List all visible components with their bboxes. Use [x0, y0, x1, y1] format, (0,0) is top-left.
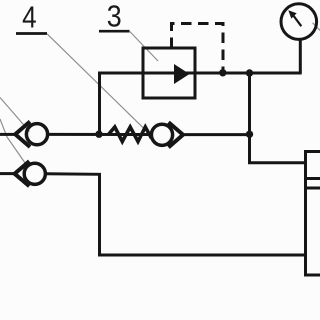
- wire: left inlet to check valve V2: [0, 172, 16, 175]
- wire: riser node A up to valve box line: [98, 72, 101, 135]
- pressure gauge stem: [299, 40, 302, 73]
- flow arrow inside valve box: [174, 64, 190, 84]
- leader line from off-canvas label to pressure gauge: [313, 23, 320, 31]
- pressure gauge needle arrowhead: [288, 10, 296, 18]
- wire: V2 to cylinder bottom port: [46, 174, 306, 255]
- svg-text:4: 4: [22, 0, 37, 35]
- wire: V1 to node A: [48, 133, 152, 136]
- leader line from off-canvas label to check valve V2: [0, 119, 28, 167]
- node D junction dot: [246, 131, 253, 138]
- check valve V2 seat: [15, 161, 30, 186]
- leader line from off-canvas label to check valve V1: [0, 98, 30, 132]
- pressure gauge body: [281, 4, 317, 40]
- leader line from label 3 to valve box: [130, 32, 158, 62]
- check valve V1 ball: [26, 124, 47, 145]
- cylinder body: [306, 152, 320, 276]
- cylinder piston line 1: [306, 177, 320, 180]
- svg-text:3: 3: [107, 0, 122, 34]
- wire: V3 to node D: [183, 133, 250, 136]
- spring over wire: [108, 127, 151, 142]
- check valve V2 ball: [24, 163, 45, 184]
- wire: top line through valve box to gauge corner: [98, 72, 302, 75]
- junction dot node B pilot tap: [219, 69, 226, 76]
- wire: node C down through node D to cylinder top port: [250, 73, 306, 163]
- node A junction dot: [95, 131, 102, 138]
- check valve V3 seat: [169, 122, 184, 147]
- label 3 underline: [99, 30, 130, 33]
- pressure valve box (3): [143, 48, 195, 98]
- pilot dashed line: [172, 24, 224, 70]
- pressure gauge needle shaft: [293, 14, 302, 26]
- check valve V3 ball: [151, 124, 172, 145]
- label 4 underline: [16, 32, 47, 35]
- cylinder piston line 2: [306, 187, 320, 190]
- check valve V1 seat: [15, 122, 30, 148]
- wire: left inlet to check valve V1: [0, 133, 16, 136]
- junction dot node C: [246, 69, 253, 76]
- leader line from label 4 to check valve V3: [47, 34, 148, 133]
